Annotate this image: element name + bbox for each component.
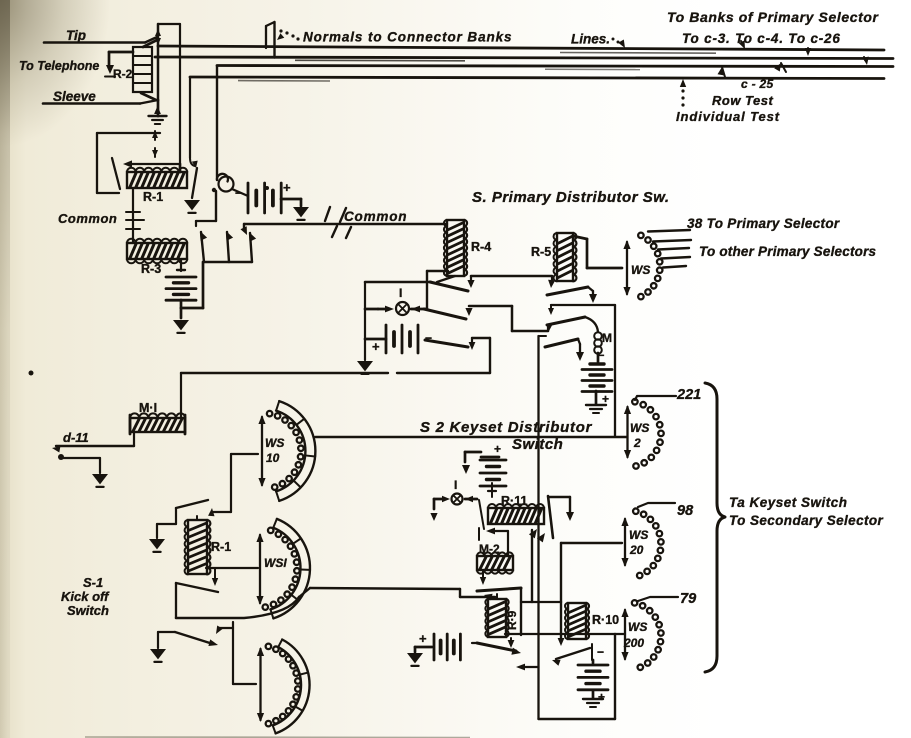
svg-text:WS: WS <box>630 421 649 435</box>
svg-text:20: 20 <box>629 543 644 557</box>
svg-text:+: + <box>372 339 380 354</box>
svg-text:+: + <box>283 180 291 195</box>
svg-text:2: 2 <box>633 436 641 450</box>
svg-text:R-4: R-4 <box>471 240 491 254</box>
svg-text:10: 10 <box>266 451 280 465</box>
svg-text:221: 221 <box>676 387 701 403</box>
svg-text:To Telephone: To Telephone <box>19 59 99 73</box>
svg-text:Sleeve: Sleeve <box>53 89 96 104</box>
svg-text:Common: Common <box>58 211 117 226</box>
svg-text:Kick off: Kick off <box>61 589 110 604</box>
svg-text:R·10: R·10 <box>592 613 619 627</box>
svg-text:R-2: R-2 <box>113 67 133 81</box>
svg-text:R-3: R-3 <box>141 262 161 276</box>
svg-text:To Banks of Primary Selector: To Banks of Primary Selector <box>667 9 880 25</box>
svg-text:To other Primary Selectors: To other Primary Selectors <box>699 244 877 259</box>
svg-text:R·9: R·9 <box>505 610 519 630</box>
svg-text:98: 98 <box>677 503 694 519</box>
svg-text:WS: WS <box>628 620 647 634</box>
svg-text:−: − <box>597 645 604 659</box>
svg-text:38 To Primary Selector: 38 To Primary Selector <box>687 216 840 231</box>
svg-text:Row Test: Row Test <box>712 93 773 108</box>
svg-text:R-1: R-1 <box>211 540 231 554</box>
svg-text:c - 25: c - 25 <box>741 77 774 91</box>
svg-text:WS: WS <box>265 436 284 450</box>
svg-text:Normals to Connector Banks: Normals to Connector Banks <box>303 30 512 45</box>
svg-text:200: 200 <box>623 636 644 650</box>
svg-text:WS: WS <box>631 263 650 277</box>
svg-text:Ta Keyset Switch: Ta Keyset Switch <box>729 495 848 510</box>
svg-text:+: + <box>494 442 501 456</box>
svg-text:To c-3. To c-4. To c-26: To c-3. To c-4. To c-26 <box>682 31 841 46</box>
svg-text:I: I <box>399 286 402 300</box>
svg-text:Switch: Switch <box>67 603 109 618</box>
svg-text:Individual Test: Individual Test <box>676 109 780 124</box>
svg-text:To Secondary Selector: To Secondary Selector <box>729 513 884 528</box>
svg-text:M: M <box>602 331 612 345</box>
svg-text:R-5: R-5 <box>531 245 551 259</box>
svg-text:79: 79 <box>680 591 696 607</box>
svg-text:S-1: S-1 <box>83 575 103 590</box>
svg-text:Lines.: Lines. <box>571 32 610 47</box>
svg-text:Switch: Switch <box>512 436 563 453</box>
svg-text:+: + <box>419 631 427 646</box>
svg-text:d-11: d-11 <box>63 430 89 445</box>
svg-text:S 2 Keyset Distributor: S 2 Keyset Distributor <box>420 419 593 436</box>
svg-text:+: + <box>598 690 605 704</box>
svg-text:WSI: WSI <box>264 556 287 570</box>
svg-text:−: − <box>425 331 432 345</box>
svg-text:WS: WS <box>629 528 648 542</box>
svg-text:I: I <box>454 478 457 492</box>
svg-text:R-1: R-1 <box>143 190 163 204</box>
svg-text:S. Primary Distributor Sw.: S. Primary Distributor Sw. <box>472 189 670 206</box>
svg-text:Tip: Tip <box>66 28 86 43</box>
svg-text:Common: Common <box>344 209 407 224</box>
